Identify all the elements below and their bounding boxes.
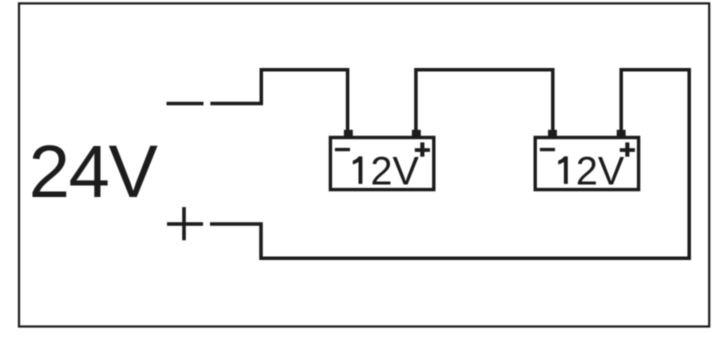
battery B1 value 12V <box>353 156 363 184</box>
battery B1 positive pin <box>412 130 421 138</box>
wire minus terminal to battery B1 negative pin <box>210 70 347 131</box>
battery B1 plus mark <box>415 142 430 156</box>
svg-text:2V: 2V <box>576 149 625 193</box>
wire B2 positive pin to plus terminal <box>210 70 689 259</box>
battery B2 positive pin <box>617 130 626 138</box>
battery B2 plus mark <box>620 142 635 156</box>
minus terminal <box>167 102 204 106</box>
battery B2 negative pin <box>548 130 557 138</box>
plus terminal <box>167 207 203 240</box>
svg-text:24V: 24V <box>29 130 159 213</box>
battery B2 body <box>535 138 638 190</box>
wire B1 positive pin to B2 negative pin <box>416 70 553 131</box>
battery B1 negative pin <box>344 130 353 138</box>
battery B2 minus mark <box>540 148 555 151</box>
battery B2 value 12V <box>558 156 568 184</box>
svg-text:2V: 2V <box>371 149 420 193</box>
battery B1 minus mark <box>335 148 350 151</box>
battery B1 body <box>330 138 433 190</box>
